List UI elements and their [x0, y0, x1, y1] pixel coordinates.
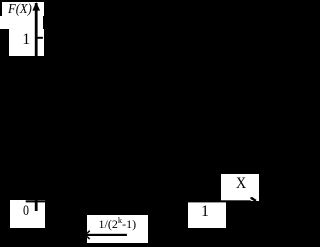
dashed line fragment at F(X)=1: [37, 37, 43, 39]
white box: "1" tick label area: [9, 29, 44, 56]
y-axis arrowhead: [32, 2, 40, 11]
label X (axis): [236, 175, 246, 193]
white box: "X" axis label: [221, 174, 259, 201]
white box: "0" origin label: [10, 200, 44, 228]
x-axis line: [26, 200, 251, 202]
white box: middle band of y-axis label area: [0, 16, 43, 29]
label F(X): [8, 2, 32, 18]
white box: F(X) label area: [2, 2, 44, 16]
x-axis open arrowhead (right end): [251, 197, 256, 201]
white box: 1/(2^k-1) label: [87, 215, 148, 243]
label 0 (origin): [23, 203, 29, 220]
left arrow open arrowhead: [87, 231, 90, 239]
label 1 (x tick): [201, 203, 209, 221]
label 1 (y tick): [22, 31, 30, 49]
white box: "1" x tick label: [188, 202, 226, 228]
y-axis shaft: [35, 3, 38, 211]
label 1/(2^k-1): [99, 215, 137, 232]
left arrow shaft under 1/(2^k-1): [87, 234, 127, 236]
